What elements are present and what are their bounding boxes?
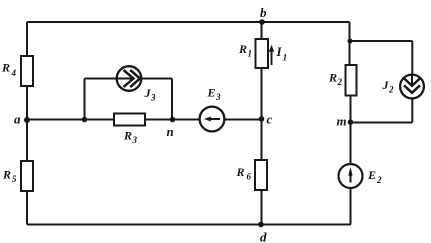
wire J3-loop right leg down to node n	[171, 79, 173, 120]
wire J3-loop top right segment	[141, 78, 172, 80]
wire middle R3 to E3 through node n	[145, 119, 200, 121]
current source J2	[400, 75, 424, 99]
node d	[258, 222, 264, 228]
wire center vertical R1 to R6 through node c	[261, 68, 263, 160]
svg-text:a: a	[14, 112, 21, 127]
wire right vertical E2 to bottom corner	[350, 188, 352, 225]
current source J3	[117, 66, 142, 91]
wire top: node b rail from left corner to right corner	[27, 21, 350, 23]
wire left vertical between R4 and R5 through node a	[26, 86, 28, 162]
wire left vertical lower (R5 to bottom corner)	[26, 191, 28, 225]
resistor R2	[346, 65, 357, 96]
node m	[348, 119, 354, 125]
wire J2 branch right leg down to J2	[411, 41, 413, 75]
resistor R5	[21, 161, 33, 191]
node n	[170, 117, 176, 123]
node b	[259, 19, 265, 25]
svg-text:b: b	[260, 5, 267, 20]
resistor R3	[114, 114, 145, 126]
junction on right vertical for J2 branch	[348, 39, 353, 44]
wire right vertical R2 to node m	[350, 96, 352, 165]
resistor R4	[21, 56, 33, 86]
resistor R1	[256, 39, 269, 68]
wire J3-loop left leg	[84, 79, 86, 120]
wire middle a to R3	[27, 119, 114, 121]
wire J2 bottom leg down	[411, 98, 413, 122]
resistor R6	[255, 160, 267, 190]
wire J2 branch top horizontal	[350, 40, 413, 42]
junction on wire a-R3 for J3 loop	[82, 117, 88, 123]
wire middle E3 to node c	[224, 119, 261, 121]
current arrow I1	[271, 49, 273, 65]
wire left vertical upper (corner to R4)	[26, 22, 28, 57]
svg-text:c: c	[267, 112, 273, 127]
wire center vertical b to R1	[261, 22, 263, 39]
wire right vertical top corner to R2	[349, 22, 351, 65]
wire bottom rail through node d	[27, 224, 351, 226]
svg-text:m: m	[337, 114, 347, 129]
voltage source E3	[200, 107, 225, 132]
wire J3-loop top left segment	[85, 78, 117, 80]
svg-text:d: d	[260, 230, 267, 243]
wire J2 return to node m	[351, 122, 413, 124]
node a	[24, 117, 30, 123]
node c	[259, 116, 265, 122]
svg-text:n: n	[167, 124, 174, 139]
wire center vertical R6 to node d	[261, 190, 263, 225]
voltage source E2	[339, 164, 363, 188]
